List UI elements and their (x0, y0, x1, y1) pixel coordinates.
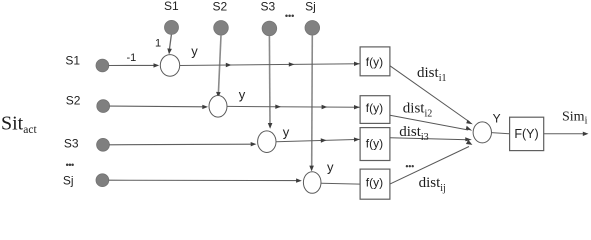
wire row3 input to sum3 (109, 142, 256, 146)
svg-text:F(Y): F(Y) (514, 127, 538, 141)
sum node 1 (160, 55, 179, 77)
svg-text:S1: S1 (164, 0, 179, 13)
wire row4 input to sum4 (109, 178, 302, 182)
node S2 top (214, 21, 229, 36)
svg-text:y: y (327, 160, 334, 175)
wire node to F(Y) (492, 133, 511, 134)
svg-text:S2: S2 (212, 0, 227, 13)
node input row1 (96, 59, 109, 72)
dots top (285, 14, 294, 17)
wire S3 column (268, 36, 273, 129)
dots left (66, 163, 74, 166)
svg-text:-1: -1 (127, 52, 137, 64)
svg-text:f(y): f(y) (366, 176, 383, 190)
box f(y) 4 (360, 169, 390, 199)
wire dist i2 (390, 115, 472, 131)
svg-text:1: 1 (155, 38, 161, 50)
svg-text:Sj: Sj (63, 173, 74, 187)
svg-text:Y: Y (493, 112, 501, 126)
node input row3 (97, 138, 110, 151)
wire F(Y) to Sim (544, 132, 589, 136)
svg-text:disti3: disti3 (399, 124, 428, 143)
svg-text:f(y): f(y) (366, 55, 383, 69)
node Sj top (305, 21, 320, 36)
svg-text:disti1: disti1 (417, 65, 446, 84)
wire row2 sum to f2 (227, 105, 360, 110)
sum node 4 (303, 172, 321, 194)
wire dist i3 (390, 137, 472, 141)
svg-text:S3: S3 (64, 136, 79, 150)
wire row4 sum to f4 (321, 182, 360, 185)
node S1 top (165, 20, 179, 34)
svg-text:y: y (239, 87, 246, 102)
svg-text:S3: S3 (260, 0, 275, 13)
svg-text:S2: S2 (66, 93, 81, 107)
box F(Y) (510, 117, 544, 150)
svg-text:Sitact: Sitact (1, 112, 37, 136)
sum node 3 (258, 131, 276, 153)
wire row1 sum to f1 (180, 62, 360, 68)
box f(y) 1 (360, 47, 390, 76)
wire dist ij (390, 140, 472, 184)
wire Sj column (309, 35, 314, 171)
box f(y) 2 (360, 96, 390, 124)
svg-text:distij: distij (419, 175, 446, 194)
wire row2 input to sum2 (110, 105, 209, 109)
sum node 2 (209, 96, 227, 118)
svg-text:S1: S1 (65, 53, 80, 67)
aggregation node (473, 122, 491, 143)
node S3 top (262, 21, 277, 36)
wire row3 sum to f3 (276, 137, 360, 142)
svg-text:y: y (283, 125, 290, 140)
box f(y) 3 (360, 128, 390, 161)
node input row4 (96, 174, 109, 187)
svg-text:Simi: Simi (562, 110, 588, 127)
wire S2 column (216, 35, 221, 98)
node input row2 (97, 100, 110, 113)
wire S1 top to sum1 (167, 35, 172, 55)
wire row1 input to sum1 (109, 63, 160, 67)
svg-text:Sj: Sj (305, 0, 316, 13)
dots dist (406, 165, 414, 167)
svg-text:f(y): f(y) (366, 136, 383, 150)
svg-text:y: y (191, 44, 198, 59)
wire dist i1 (390, 66, 473, 124)
svg-text:disti2: disti2 (403, 101, 432, 120)
svg-text:f(y): f(y) (366, 101, 383, 115)
